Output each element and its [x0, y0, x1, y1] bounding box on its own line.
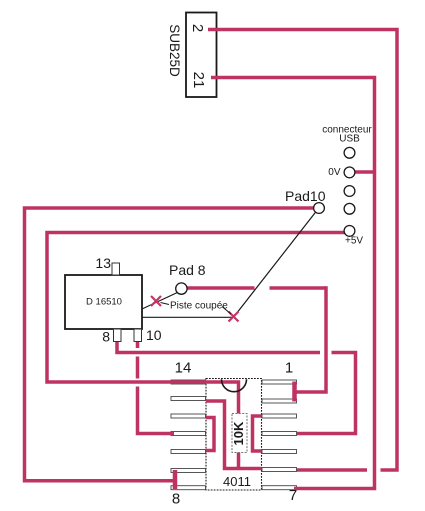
connector J1 SUB25D body: [186, 13, 217, 98]
wire net D16510 pin10 to 4011 pin11: [138, 342, 175, 434]
label connecteur USB: [322, 125, 372, 145]
svg-text:0V: 0V: [328, 167, 341, 178]
label 4011: [223, 474, 251, 489]
pad circle Pad 8: [169, 262, 206, 294]
pin label 14: [175, 360, 192, 377]
D16510 pin 8 (bottom): [102, 329, 121, 345]
wire net SUB25D pin21 / 0V to 4011 pin7: [211, 78, 375, 489]
USB pad 2 0V: [328, 167, 355, 178]
D16510 pin 13 (top): [95, 255, 119, 275]
wire net D16510 pin8 to 4011 pin4: [117, 342, 356, 434]
svg-text:10: 10: [146, 327, 162, 343]
pin label 8 (4011 bottom left): [172, 491, 180, 508]
resistor R1 10K: [231, 414, 247, 453]
pin label 1: [285, 360, 293, 377]
wire net SUB25D pin2 to 4011 pin6: [208, 30, 397, 471]
label SUB25D: [167, 24, 182, 77]
svg-text:SUB25D: SUB25D: [167, 24, 182, 77]
svg-text:21: 21: [190, 72, 207, 89]
svg-text:13: 13: [95, 255, 111, 271]
pin label 7 (4011 bottom right): [289, 487, 297, 504]
wire net Pad10 to 4011 pins 8 and 9: [25, 208, 314, 489]
svg-text:Piste coupée: Piste coupée: [170, 301, 228, 312]
svg-text:Pad 8: Pad 8: [169, 262, 206, 278]
X mark piste coupee 1: [151, 296, 161, 306]
trace from D16510 to Pad 8 (black): [142, 293, 177, 310]
svg-text:+5V: +5V: [345, 236, 363, 247]
svg-text:7: 7: [289, 487, 297, 504]
4011 notch: [222, 379, 247, 392]
4011 IC body U1: [206, 379, 262, 491]
wire net +5V to 4011 pin14 and resistor top: [47, 233, 345, 414]
svg-text:8: 8: [172, 491, 180, 508]
4011 right pins 1,2,3,4,5,6,7: [262, 380, 297, 490]
4011 left pins 14,13,12,11,10,9,8: [171, 380, 206, 490]
USB pad 3: [344, 186, 355, 197]
svg-text:2: 2: [189, 24, 206, 32]
svg-text:USB: USB: [339, 134, 360, 145]
trace from D16510 to Pad 10 (black): [142, 213, 315, 318]
svg-text:Pad10: Pad10: [285, 188, 326, 204]
svg-text:4011: 4011: [223, 474, 251, 489]
component D16510 body: [65, 275, 142, 329]
wire 4011 internal pin3 to pin5: [253, 416, 262, 451]
svg-text:8: 8: [102, 329, 110, 345]
wire net Pad8 to 4011 pins 1 and 2: [187, 286, 326, 401]
pin 21 label of SUB25D: [190, 72, 207, 89]
svg-text:D 16510: D 16510: [86, 297, 122, 308]
pin 2 label of SUB25D: [189, 24, 206, 32]
wire 4011 internal pin13 to pin6 and resistor bottom: [206, 401, 262, 469]
label Piste coupee with pointers: [161, 301, 232, 315]
D16510 pin 10 (bottom): [134, 327, 162, 343]
USB pad 1: [344, 147, 355, 158]
pad circle Pad10: [285, 188, 326, 213]
USB pad 4: [344, 203, 355, 214]
wire 4011 internal pin12 to pin10: [206, 418, 214, 451]
svg-text:1: 1: [285, 360, 293, 377]
X mark piste coupee 2: [229, 312, 239, 322]
svg-text:14: 14: [175, 360, 192, 377]
svg-text:10K: 10K: [231, 421, 246, 445]
USB pad 5 +5V: [344, 226, 363, 247]
